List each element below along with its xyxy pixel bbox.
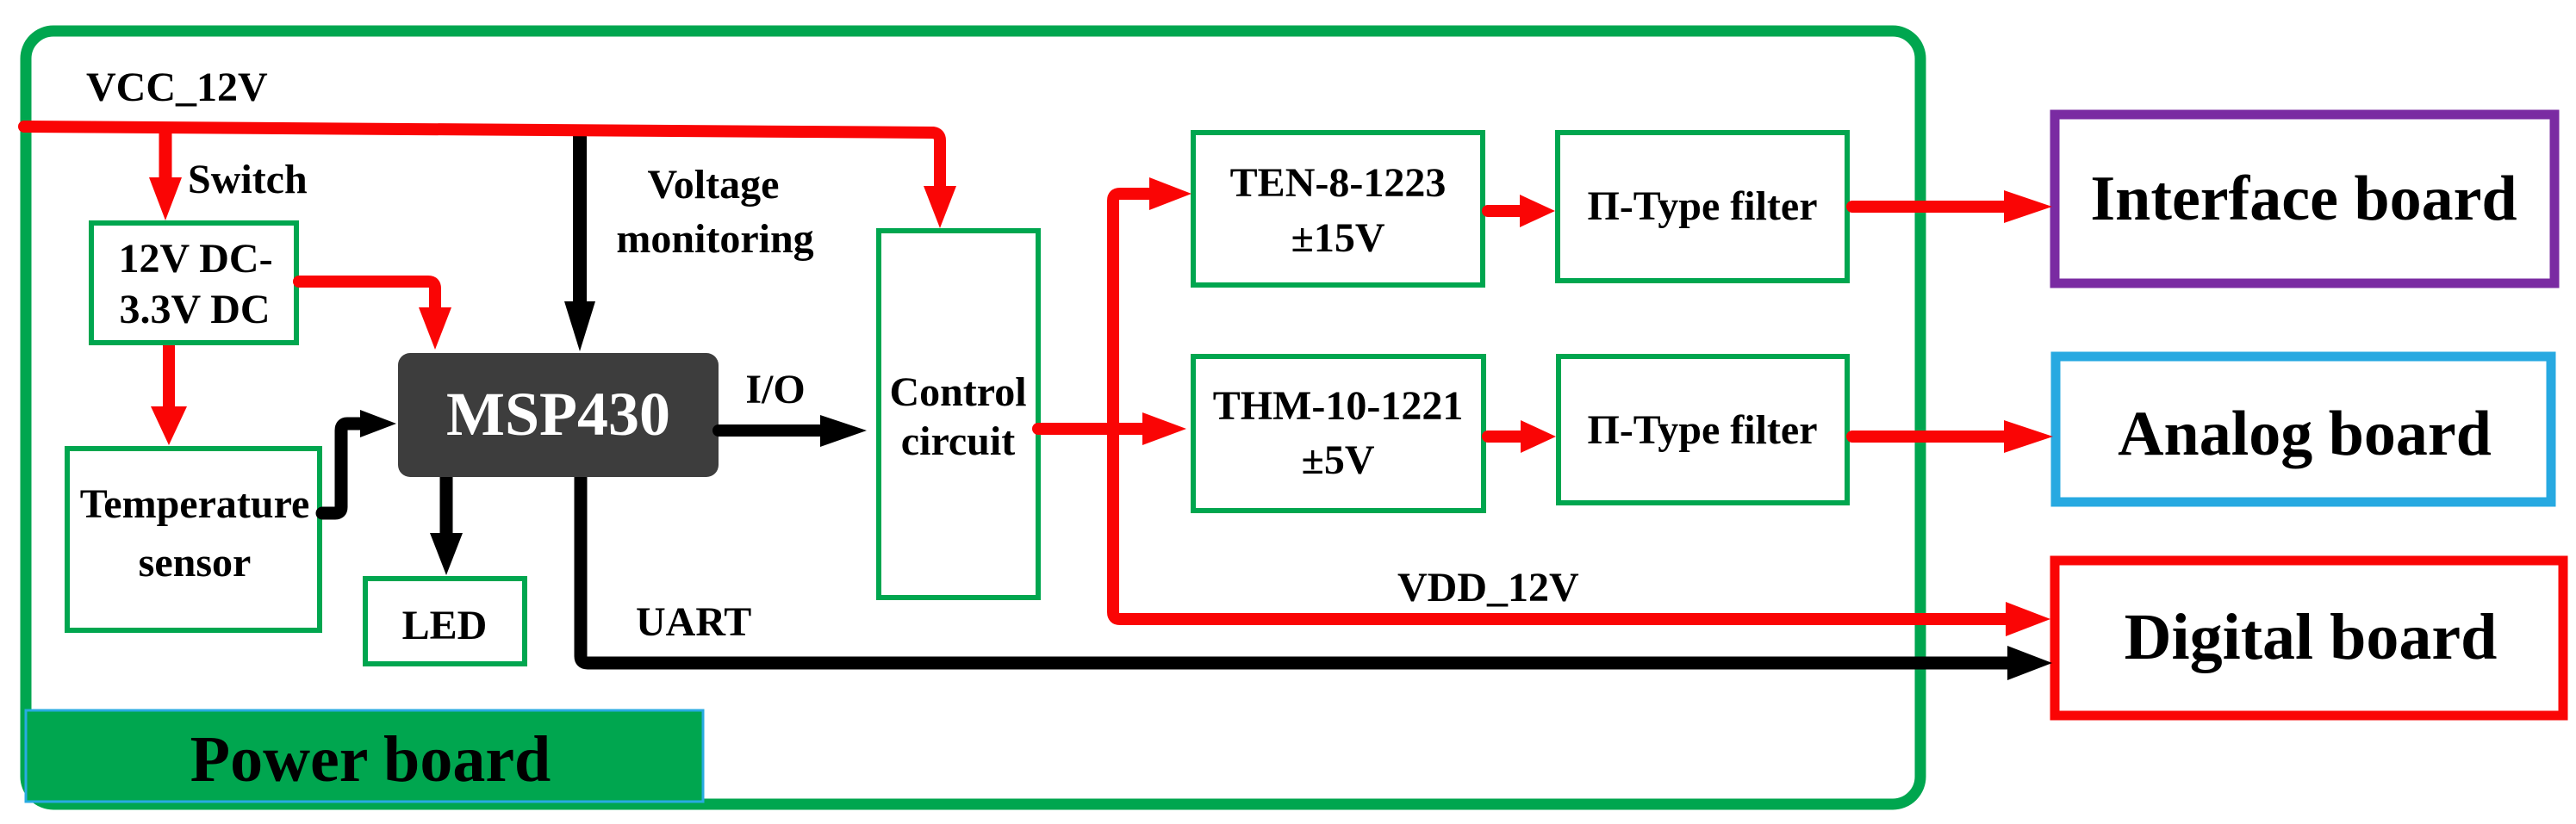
box 12V DC-3.3V DC converter bbox=[91, 223, 296, 343]
svg-text:circuit: circuit bbox=[901, 418, 1015, 464]
wire control circuit to THM-10-1221 (red) bbox=[1038, 423, 1144, 435]
wire 12V DC to temperature sensor (red) bbox=[163, 345, 175, 408]
svg-text:Temperature: Temperature bbox=[80, 481, 310, 527]
svg-text:Voltage: Voltage bbox=[648, 162, 780, 208]
svg-text:Π-Type filter: Π-Type filter bbox=[1587, 407, 1817, 453]
svg-text:UART: UART bbox=[636, 599, 751, 645]
wire 12V DC to MSP430 (red) bbox=[299, 282, 435, 309]
box Analog board bbox=[2056, 356, 2551, 502]
wire UART (black) bbox=[581, 477, 2009, 663]
svg-text:3.3V DC: 3.3V DC bbox=[119, 287, 270, 332]
svg-text:VCC_12V: VCC_12V bbox=[86, 65, 268, 110]
box Pi-type filter 2 bbox=[1559, 356, 1847, 503]
wire TEN to filter 1 (red) bbox=[1488, 205, 1521, 217]
chip MSP430 bbox=[398, 353, 719, 477]
svg-text:THM-10-1221: THM-10-1221 bbox=[1213, 383, 1464, 429]
svg-text:I/O: I/O bbox=[745, 367, 805, 412]
wire filter 1 to interface board (red) bbox=[1852, 201, 2006, 213]
svg-text:Π-Type filter: Π-Type filter bbox=[1587, 183, 1817, 229]
svg-text:Analog board: Analog board bbox=[2118, 399, 2492, 469]
wire switch branch (red) bbox=[159, 129, 172, 179]
box Digital board bbox=[2055, 561, 2563, 716]
box TEN-8-1223 bbox=[1193, 133, 1483, 285]
svg-text:Power board: Power board bbox=[190, 723, 551, 796]
svg-text:Digital board: Digital board bbox=[2125, 601, 2498, 673]
svg-text:±5V: ±5V bbox=[1301, 437, 1374, 483]
box Interface board bbox=[2055, 115, 2554, 283]
svg-text:TEN-8-1223: TEN-8-1223 bbox=[1230, 160, 1447, 206]
svg-text:Control: Control bbox=[889, 369, 1026, 415]
wire I/O MSP430 to control circuit (black) bbox=[719, 424, 822, 437]
wire MSP430 to LED (black) bbox=[440, 477, 453, 535]
svg-text:LED: LED bbox=[402, 603, 488, 648]
svg-text:sensor: sensor bbox=[139, 540, 252, 585]
wire voltage monitoring (black) bbox=[573, 127, 587, 303]
svg-text:Interface board: Interface board bbox=[2090, 164, 2517, 234]
wire VDD_12V trunk and branch to TEN and digital board (red) bbox=[1113, 194, 2007, 619]
svg-text:±15V: ±15V bbox=[1291, 215, 1384, 261]
box Temperature sensor bbox=[67, 449, 320, 630]
svg-text:12V DC-: 12V DC- bbox=[118, 236, 272, 282]
box THM-10-1221 bbox=[1193, 356, 1484, 511]
power board label box bbox=[26, 710, 703, 802]
svg-text:MSP430: MSP430 bbox=[446, 380, 670, 449]
power board outer border bbox=[26, 31, 1920, 804]
svg-text:Switch: Switch bbox=[188, 157, 308, 202]
svg-text:monitoring: monitoring bbox=[616, 216, 813, 262]
wire temperature sensor to MSP430 (black) bbox=[322, 424, 362, 513]
wire THM to filter 2 (red) bbox=[1488, 431, 1522, 443]
box LED bbox=[365, 579, 525, 664]
wire filter 2 to analog board (red) bbox=[1852, 431, 2006, 443]
box Control circuit bbox=[879, 231, 1038, 598]
wire VCC_12V top rail (red) bbox=[24, 127, 940, 188]
box Pi-type filter 1 bbox=[1558, 133, 1847, 281]
svg-text:VDD_12V: VDD_12V bbox=[1397, 565, 1579, 610]
